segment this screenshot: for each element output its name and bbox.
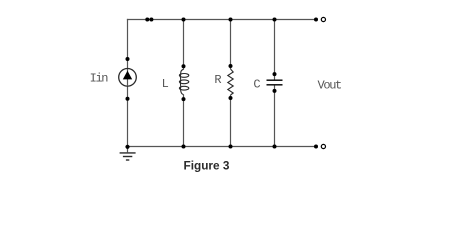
svg-text:C: C [253, 78, 260, 92]
svg-text:R: R [214, 73, 221, 87]
svg-text:Vout: Vout [318, 78, 342, 92]
svg-text:Iin: Iin [90, 72, 109, 86]
svg-text:L: L [162, 77, 169, 91]
svg-text:Figure 3: Figure 3 [184, 158, 230, 172]
